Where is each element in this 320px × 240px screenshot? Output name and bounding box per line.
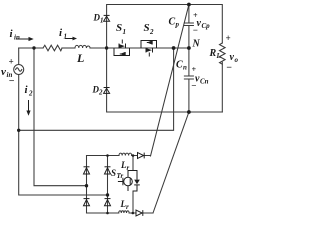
svg-text:S: S <box>111 168 116 178</box>
svg-text:i: i <box>59 27 63 39</box>
svg-text:2: 2 <box>149 28 154 36</box>
svg-text:−: − <box>226 63 232 74</box>
svg-text:L: L <box>216 52 221 60</box>
svg-text:C: C <box>176 60 183 71</box>
svg-text:in: in <box>14 34 20 42</box>
svg-text:+: + <box>226 33 231 43</box>
svg-text:r: r <box>127 164 130 172</box>
svg-text:i: i <box>10 28 14 40</box>
svg-text:r: r <box>126 203 129 211</box>
svg-text:n: n <box>183 64 187 72</box>
svg-text:1: 1 <box>64 33 68 41</box>
svg-text:o: o <box>235 56 239 64</box>
svg-text:2: 2 <box>98 89 103 97</box>
svg-text:1: 1 <box>123 28 127 36</box>
svg-text:i: i <box>25 84 29 96</box>
svg-text:C: C <box>169 17 176 28</box>
svg-text:1: 1 <box>100 17 104 25</box>
svg-text:−: − <box>193 25 198 35</box>
svg-text:2: 2 <box>28 90 33 98</box>
svg-text:−: − <box>9 76 15 87</box>
svg-text:Tr: Tr <box>117 172 124 180</box>
svg-text:R: R <box>209 48 217 59</box>
svg-text:−: − <box>191 81 196 91</box>
svg-text:Cn: Cn <box>200 78 209 86</box>
svg-text:S: S <box>116 22 122 34</box>
svg-text:L: L <box>76 51 84 65</box>
svg-text:p: p <box>175 21 180 29</box>
svg-text:Cp: Cp <box>202 22 211 30</box>
svg-text:S: S <box>144 22 150 34</box>
svg-text:v: v <box>1 66 6 78</box>
svg-text:N: N <box>192 39 201 50</box>
svg-text:+: + <box>9 57 14 67</box>
